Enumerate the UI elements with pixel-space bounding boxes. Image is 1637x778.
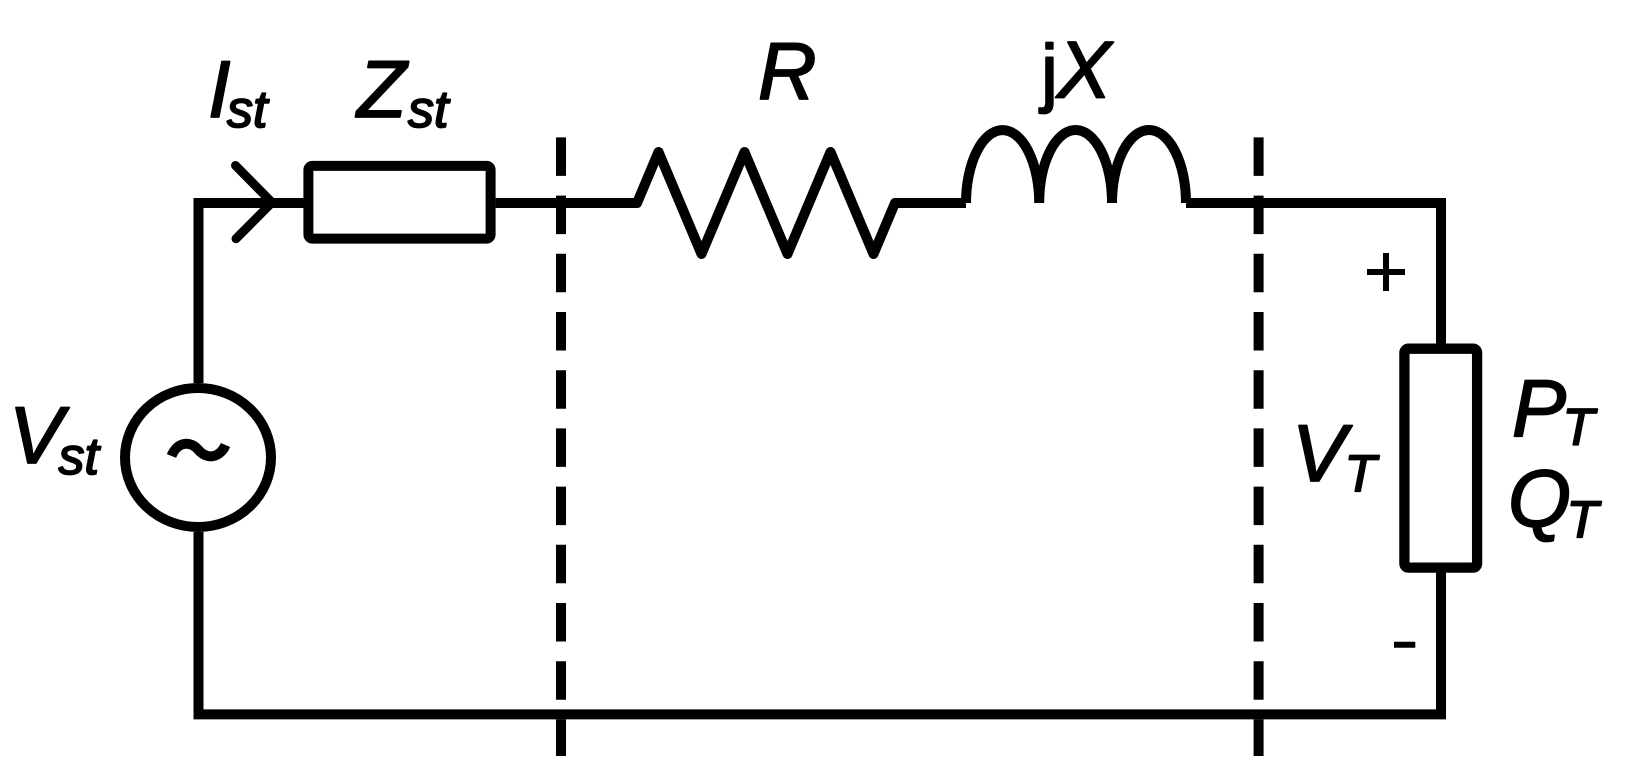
wire: Zst box to resistor (496, 198, 637, 208)
dashed boundary line 1 (556, 137, 566, 756)
wire: left vertical from top wire down to source top (194, 208, 204, 383)
inductor jX (three arches) (966, 130, 1186, 203)
dashed boundary line 2 (1254, 137, 1264, 756)
svg-text:st: st (408, 81, 451, 139)
arrow Ist current direction (236, 166, 273, 239)
svg-text:T: T (1345, 446, 1380, 504)
load box PT QT (1404, 349, 1477, 568)
wire: load box bottom to bottom wire (1436, 568, 1446, 715)
svg-text:T: T (1563, 399, 1598, 457)
plus terminal (1367, 253, 1405, 291)
node corner top-left (194, 198, 204, 208)
wire: resistor to inductor (895, 198, 966, 208)
wire: inductor to top-right corner and down to load box (1186, 203, 1441, 349)
svg-text:Q: Q (1508, 454, 1571, 544)
bottom wire (199, 532, 1447, 714)
wire: top-left horizontal from corner to Zst box (194, 198, 306, 208)
svg-text:T: T (1567, 491, 1602, 549)
AC source Vst circle (125, 388, 271, 527)
source tilde (172, 444, 226, 457)
svg-text:st: st (59, 428, 102, 486)
svg-text:j: j (1039, 30, 1058, 115)
impedance Zst (box) (308, 166, 490, 239)
minus terminal (1394, 642, 1415, 648)
svg-text:R: R (758, 27, 817, 117)
svg-text:Z: Z (355, 45, 409, 135)
svg-text:X: X (1055, 26, 1114, 116)
resistor R zigzag (630, 152, 902, 254)
svg-text:st: st (227, 81, 270, 139)
svg-text:P: P (1512, 364, 1566, 454)
